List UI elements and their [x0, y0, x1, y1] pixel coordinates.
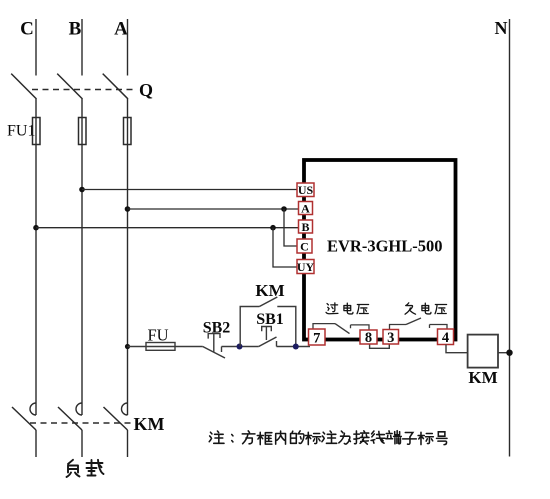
switch Q pole A blade — [103, 74, 128, 99]
terminal US — [297, 183, 314, 197]
wire control rail right — [277, 346, 311, 348]
svg-text:A: A — [114, 19, 128, 40]
wire phase A middle — [127, 99, 129, 415]
wire C phase to terminal B — [36, 227, 299, 229]
svg-text:UY: UY — [297, 260, 315, 274]
svg-text:3: 3 — [387, 330, 394, 346]
node neutral junction — [506, 350, 512, 356]
svg-text:7: 7 — [313, 331, 320, 347]
node B phase tap — [79, 187, 85, 193]
contactor KM linkage dashed — [30, 422, 132, 424]
wire B phase to terminal US — [82, 189, 297, 191]
svg-text:8: 8 — [365, 330, 372, 346]
node C phase tap — [33, 225, 39, 231]
switch Q pole C blade — [11, 74, 36, 99]
terminal 3 — [383, 330, 399, 347]
pushbutton SB1 contact tick — [276, 341, 278, 347]
svg-text:4: 4 — [442, 330, 449, 346]
svg-text:FU1: FU1 — [7, 123, 35, 140]
switch Q linkage dashed — [32, 89, 133, 91]
svg-text:C: C — [20, 19, 34, 40]
wire phase B bottom — [81, 430, 83, 457]
svg-text:SB1: SB1 — [256, 311, 284, 328]
relay contact overvoltage 7-8 — [313, 324, 369, 330]
fuse FU1 pole C — [33, 118, 41, 145]
wire phase C top — [35, 19, 37, 76]
fuse FU — [146, 343, 175, 351]
label load 负载 — [67, 460, 104, 477]
contactor KM pole A arc — [122, 403, 128, 415]
wire A phase to terminal A — [128, 208, 299, 210]
svg-text:SB2: SB2 — [203, 320, 231, 337]
svg-text:KM: KM — [255, 281, 284, 300]
terminal A — [299, 201, 313, 215]
label undervoltage 欠电压 — [405, 303, 447, 314]
node SB1 right — [293, 344, 299, 350]
label overvoltage 过电压 — [326, 303, 369, 314]
terminal 7 — [309, 329, 326, 347]
svg-text:FU: FU — [147, 326, 168, 345]
wire phase B middle — [81, 99, 83, 415]
pushbutton SB1 blade — [259, 337, 277, 347]
terminal B — [299, 220, 313, 234]
svg-text:US: US — [298, 183, 314, 197]
control node A phase tap — [125, 344, 130, 349]
switch Q pole B blade — [57, 74, 82, 99]
wire phase C bottom — [35, 430, 37, 457]
wire phase A bottom — [127, 430, 129, 457]
wire control rail left — [128, 346, 203, 348]
wire neutral N — [509, 19, 511, 457]
contactor KM pole B blade — [58, 407, 82, 430]
terminal UY — [297, 260, 315, 274]
svg-text:KM: KM — [468, 368, 497, 387]
wire coil KM to neutral — [498, 352, 510, 354]
contactor KM pole C blade — [12, 407, 36, 430]
wire branch to terminal UY — [273, 228, 297, 267]
svg-text:EVR-3GHL-500: EVR-3GHL-500 — [327, 237, 443, 256]
pushbutton SB2 contact tick — [221, 347, 223, 353]
svg-text:Q: Q — [139, 80, 153, 100]
wire control rail middle — [222, 346, 259, 348]
relay contact undervoltage 3-4 — [390, 325, 448, 330]
terminal 8 — [360, 330, 377, 346]
svg-text:B: B — [69, 19, 82, 40]
node branch to terminal C — [281, 206, 287, 212]
wire jumper 8-3 — [370, 344, 390, 348]
contactor KM auxiliary blade — [259, 297, 277, 307]
node branch to terminal UY — [270, 225, 276, 231]
wire phase A top — [127, 19, 129, 76]
node A phase tap — [125, 206, 131, 212]
relay EVR-3GHL-500 housing — [304, 160, 456, 340]
svg-text:A: A — [301, 201, 310, 215]
wire phase B top — [81, 19, 83, 76]
contactor KM pole A blade — [104, 407, 128, 430]
wire terminal 4 to coil KM — [446, 345, 468, 353]
terminal C — [297, 239, 312, 253]
svg-text:B: B — [301, 220, 309, 234]
fuse FU1 pole A — [124, 118, 132, 145]
svg-text:N: N — [495, 18, 508, 38]
pushbutton SB2 blade — [203, 347, 225, 359]
contactor KM auxiliary branch — [240, 307, 296, 347]
wire phase C middle — [35, 99, 37, 415]
pushbutton SB1 actuator — [262, 327, 272, 341]
coil KM box — [468, 335, 498, 368]
contactor KM pole C arc — [30, 403, 36, 415]
fuse FU1 pole B — [79, 118, 87, 145]
note text 注：方框内的标注为接线端子标号 — [209, 431, 447, 445]
terminal 4 — [438, 329, 454, 346]
node SB1 left — [237, 344, 243, 350]
wire branch to terminal C — [284, 209, 297, 246]
svg-text:C: C — [300, 239, 309, 253]
contactor KM pole B arc — [76, 403, 82, 415]
svg-text:KM: KM — [134, 414, 165, 434]
pushbutton SB2 actuator — [208, 334, 220, 352]
